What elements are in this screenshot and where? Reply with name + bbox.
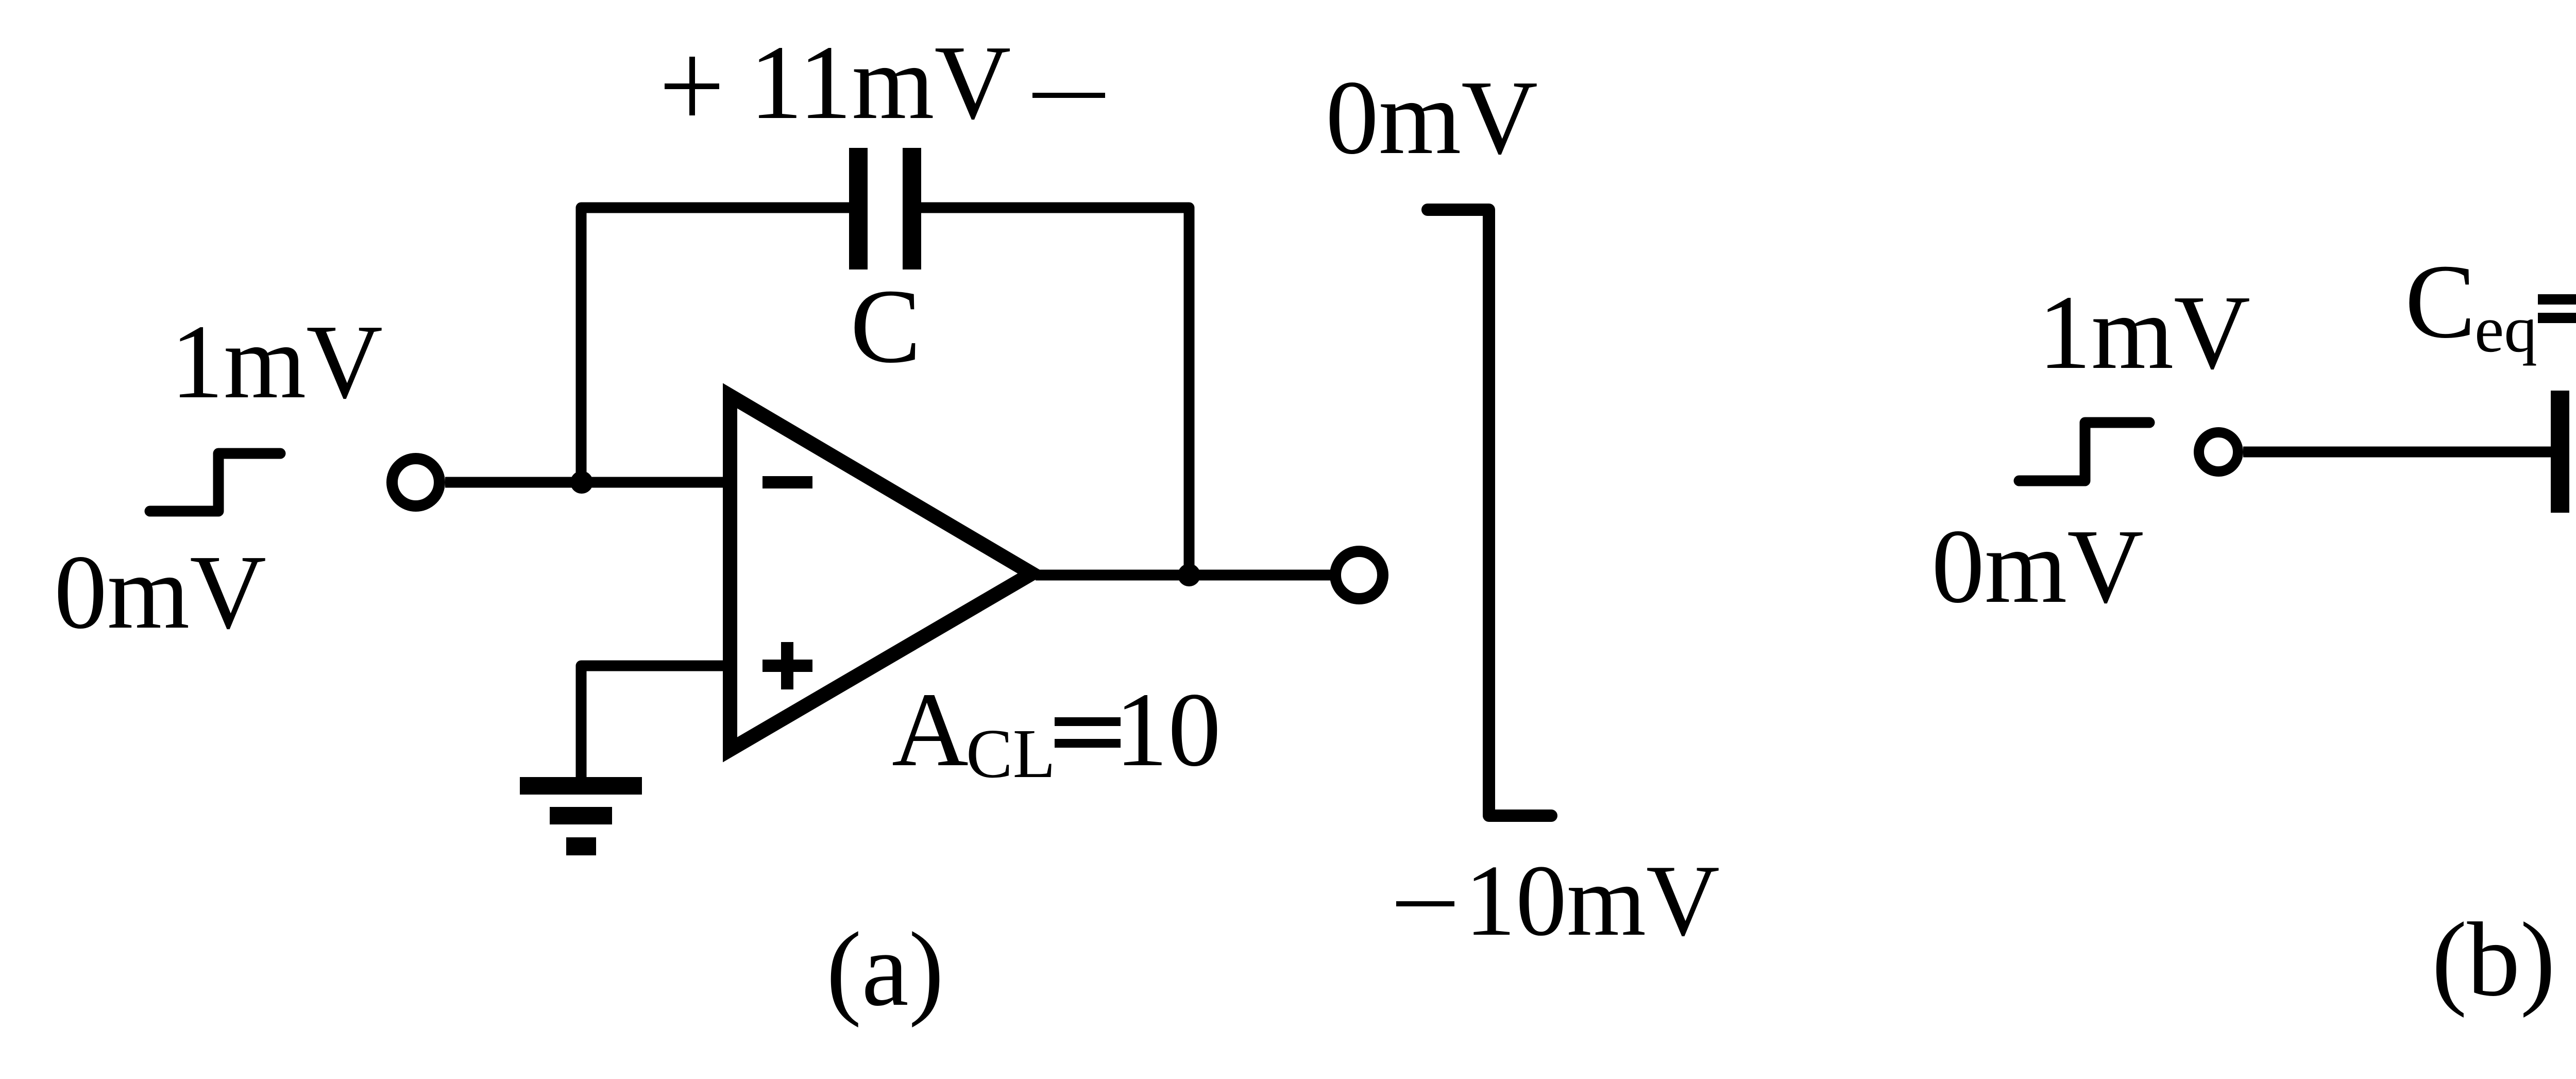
- svg-text:1mV: 1mV: [171, 302, 383, 420]
- svg-text:C: C: [2405, 242, 2476, 360]
- svg-text:C: C: [850, 267, 921, 385]
- svg-text:0mV: 0mV: [1326, 58, 1538, 176]
- svg-text:11mV: 11mV: [750, 23, 1011, 141]
- svg-text:10: 10: [1115, 670, 1221, 788]
- svg-text:0mV: 0mV: [1931, 507, 2144, 625]
- svg-text:eq: eq: [2475, 292, 2537, 366]
- svg-text:A: A: [892, 670, 969, 788]
- svg-text:(b): (b): [2432, 900, 2555, 1018]
- svg-text:0mV: 0mV: [54, 533, 266, 651]
- svg-text:CL: CL: [966, 715, 1056, 793]
- svg-text:10mV: 10mV: [1465, 844, 1720, 957]
- svg-text:1mV: 1mV: [2038, 273, 2250, 391]
- svg-text:(a): (a): [826, 910, 944, 1028]
